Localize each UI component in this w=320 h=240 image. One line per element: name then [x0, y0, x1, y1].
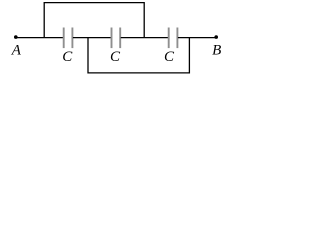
svg-text:C: C: [110, 49, 121, 65]
capacitor C1: [64, 28, 73, 49]
node A terminal dot: [14, 35, 18, 39]
svg-text:A: A: [11, 43, 22, 59]
svg-text:B: B: [212, 43, 221, 59]
wire top bypass (left vertical, top rail, right vertical): [44, 3, 144, 38]
svg-text:C: C: [62, 49, 73, 65]
node B terminal dot: [214, 35, 218, 39]
svg-text:C: C: [164, 49, 175, 65]
wire C2 to C3: [121, 37, 169, 39]
wire C3 to B: [178, 37, 216, 39]
capacitor C3: [169, 28, 178, 49]
capacitor C2: [112, 28, 121, 49]
wire bottom bypass (left vertical, bottom rail, right vertical): [88, 38, 189, 73]
wire A to C1 left plate: [16, 37, 63, 39]
wire C1 to C2: [73, 37, 111, 39]
